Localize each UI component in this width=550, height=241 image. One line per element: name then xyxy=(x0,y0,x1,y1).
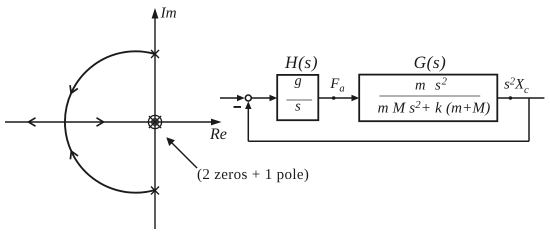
node dot Fa xyxy=(332,96,336,100)
Re axis xyxy=(5,121,216,123)
pole X bottom xyxy=(151,187,159,195)
center dot xyxy=(153,120,156,123)
svg-text:Re: Re xyxy=(209,126,227,143)
arrowhead into H xyxy=(270,95,278,101)
svg-text:m M s2+ k (m+M): m M s2+ k (m+M) xyxy=(378,99,491,117)
svg-text:Im: Im xyxy=(160,5,177,22)
wire sum to H xyxy=(252,97,272,99)
Im axis xyxy=(154,16,156,229)
block G(s) xyxy=(359,75,497,122)
Re axis arrowhead xyxy=(211,119,222,126)
locus direction chevron upper arc (pointing down-left) xyxy=(70,85,78,93)
output node dot xyxy=(509,96,513,100)
feedback arrowhead into summing junction xyxy=(245,101,251,109)
minus sign xyxy=(234,106,242,108)
zero inner circle xyxy=(152,119,159,126)
zero outer circle xyxy=(148,115,161,128)
wire H to G xyxy=(318,97,353,99)
input arrowhead xyxy=(237,95,245,101)
input wire xyxy=(220,97,239,99)
summing junction xyxy=(245,95,251,101)
origin marker: 2 zeros + 1 pole xyxy=(148,115,161,128)
svg-text:(2 zeros + 1 pole): (2 zeros + 1 pole) xyxy=(197,167,309,183)
root locus circular arc xyxy=(65,51,155,192)
locus direction chevron right (real axis, pointing right) xyxy=(97,118,104,126)
feedback wire bottom horizontal xyxy=(248,140,529,142)
locus direction chevron left (real axis, pointing left) xyxy=(29,118,36,126)
pole X diagonals xyxy=(149,116,161,128)
output wire xyxy=(497,97,544,99)
annotation arrow xyxy=(170,141,197,168)
locus direction chevron lower arc (pointing up-left) xyxy=(70,151,78,159)
fraction bar xyxy=(379,95,480,97)
feedback wire right vertical xyxy=(528,98,530,141)
block H(s) xyxy=(277,75,318,120)
arrowhead into G xyxy=(352,95,360,101)
feedback wire left vertical xyxy=(247,105,249,141)
pole X top xyxy=(151,50,159,58)
svg-text:g: g xyxy=(295,73,302,89)
svg-text:H(s): H(s) xyxy=(284,53,318,72)
Im axis arrowhead xyxy=(152,8,159,19)
svg-text:s: s xyxy=(295,98,301,114)
svg-text:G(s): G(s) xyxy=(414,53,447,72)
